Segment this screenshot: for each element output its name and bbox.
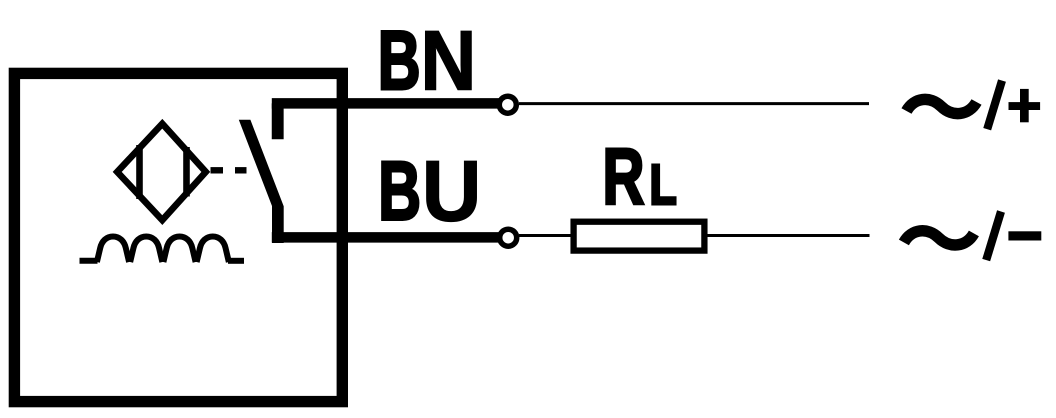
svg-text:L: L (650, 153, 677, 216)
svg-text:U: U (422, 142, 482, 239)
svg-text:B: B (378, 14, 421, 107)
svg-text:B: B (378, 145, 421, 238)
svg-text:N: N (421, 14, 477, 108)
svg-text:R: R (603, 132, 645, 221)
